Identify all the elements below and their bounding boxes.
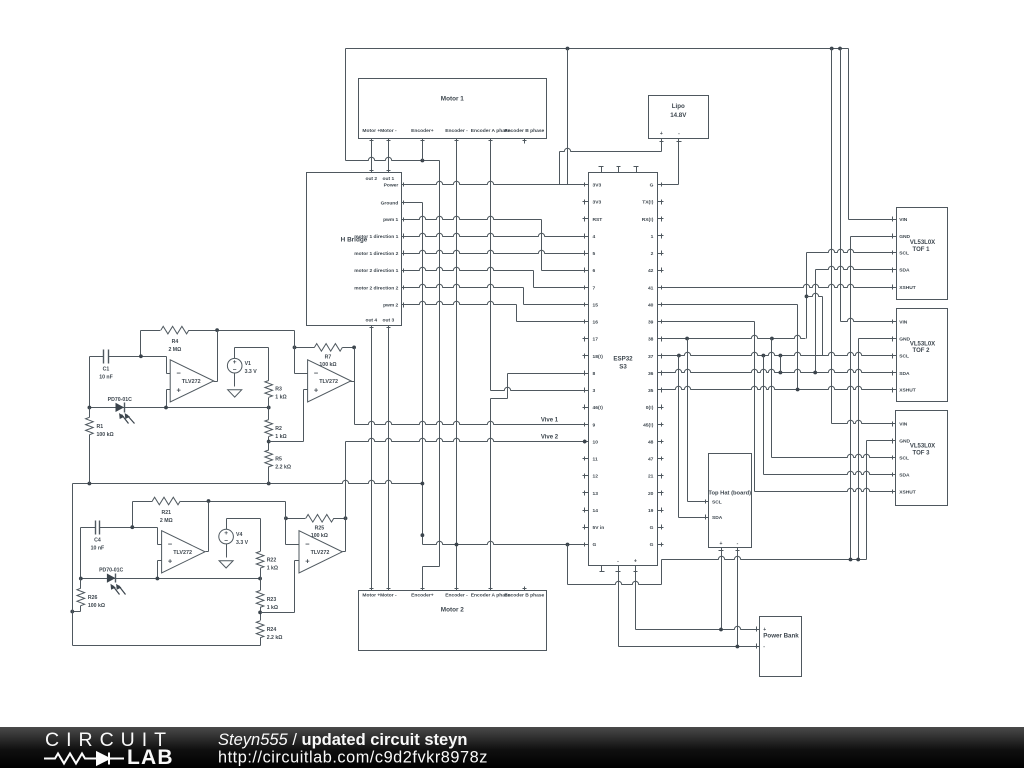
svg-text:V1: V1 [245, 361, 251, 367]
svg-text:out 3: out 3 [383, 318, 395, 324]
svg-text:+: + [177, 385, 182, 394]
svg-text:5: 5 [593, 251, 596, 257]
svg-text:17: 17 [593, 337, 599, 343]
svg-text:100 kΩ: 100 kΩ [88, 603, 105, 609]
svg-text:45(!): 45(!) [643, 422, 654, 428]
svg-text:21: 21 [648, 474, 654, 480]
svg-text:R5: R5 [275, 456, 282, 462]
svg-text:9: 9 [593, 422, 596, 428]
svg-text:47: 47 [648, 457, 654, 463]
svg-text:+: + [634, 559, 637, 565]
svg-text:Encoder B phase: Encoder B phase [504, 128, 544, 134]
svg-text:TLV272: TLV272 [319, 379, 338, 385]
svg-text:VIN: VIN [899, 320, 908, 326]
svg-text:−: − [233, 366, 237, 373]
svg-text:16: 16 [593, 320, 599, 326]
svg-text:TLV272: TLV272 [311, 550, 330, 556]
svg-text:+: + [720, 541, 723, 547]
svg-text:Steyn555 / updated circuit ste: Steyn555 / updated circuit steyn [218, 731, 467, 749]
svg-text:VL53L0X: VL53L0X [910, 444, 935, 450]
svg-text:TLV272: TLV272 [173, 550, 192, 556]
svg-text:G: G [593, 542, 597, 548]
svg-text:LAB: LAB [127, 746, 174, 768]
svg-text:RX(!): RX(!) [642, 217, 654, 223]
svg-text:1 kΩ: 1 kΩ [267, 605, 278, 611]
svg-text:8: 8 [593, 371, 596, 377]
svg-text:−: − [305, 539, 310, 548]
svg-text:1 kΩ: 1 kΩ [267, 566, 278, 572]
svg-text:40: 40 [648, 302, 654, 308]
svg-text:ESP32: ESP32 [613, 355, 633, 362]
svg-text:GND: GND [899, 337, 910, 343]
svg-text:pwm 2: pwm 2 [383, 303, 398, 309]
svg-text:SDA: SDA [712, 515, 723, 521]
svg-text:39: 39 [648, 320, 654, 326]
svg-text:19: 19 [648, 508, 654, 514]
svg-text:Motor 1: Motor 1 [441, 95, 465, 102]
svg-text:Motor +: Motor + [362, 128, 380, 134]
svg-text:XSHUT: XSHUT [899, 388, 916, 394]
svg-text:V4: V4 [236, 532, 242, 538]
svg-text:46(!): 46(!) [593, 405, 604, 411]
svg-text:−: − [177, 369, 182, 378]
svg-text:Lipo: Lipo [672, 103, 685, 110]
svg-text:VL53L0X: VL53L0X [910, 341, 935, 347]
svg-text:11: 11 [593, 457, 598, 463]
svg-text:RST: RST [593, 217, 603, 223]
svg-text:-: - [763, 644, 765, 650]
svg-text:10 nF: 10 nF [99, 375, 113, 381]
svg-text:Encoder B phase: Encoder B phase [504, 593, 544, 599]
svg-text:20: 20 [648, 491, 654, 497]
svg-text:PD70-01C: PD70-01C [99, 568, 123, 574]
svg-text:SCL: SCL [899, 354, 909, 360]
svg-text:0(!): 0(!) [646, 405, 654, 411]
svg-text:out 4: out 4 [365, 318, 377, 324]
svg-text:Ground: Ground [381, 200, 399, 206]
svg-text:SCL: SCL [712, 499, 722, 505]
svg-text:Motor -: Motor - [380, 128, 397, 134]
svg-text:SCL: SCL [899, 455, 909, 461]
svg-text:http://circuitlab.com/c9d2fvkr: http://circuitlab.com/c9d2fvkr8978z [218, 749, 488, 767]
svg-text:TOF 1: TOF 1 [913, 247, 931, 253]
svg-text:38: 38 [648, 337, 654, 343]
svg-text:VIN: VIN [899, 422, 908, 428]
svg-text:TX(!): TX(!) [642, 200, 654, 206]
svg-text:10: 10 [593, 439, 599, 445]
svg-text:SDA: SDA [899, 371, 910, 377]
svg-text:R25: R25 [315, 525, 325, 531]
svg-text:2 MΩ: 2 MΩ [160, 518, 173, 524]
svg-text:out 1: out 1 [383, 176, 395, 182]
svg-text:100 kΩ: 100 kΩ [97, 432, 114, 438]
svg-text:motor 2 direction 1: motor 2 direction 1 [354, 268, 398, 274]
svg-text:PD70-01C: PD70-01C [108, 397, 132, 403]
svg-text:3.3 V: 3.3 V [236, 540, 249, 546]
svg-text:100 kΩ: 100 kΩ [311, 533, 328, 539]
svg-text:2 MΩ: 2 MΩ [168, 347, 181, 353]
svg-text:TOF 2: TOF 2 [913, 348, 931, 354]
svg-text:XSHUT: XSHUT [899, 285, 916, 291]
svg-text:3.3 V: 3.3 V [245, 369, 258, 375]
svg-text:3V3: 3V3 [593, 183, 602, 189]
svg-text:Encoder+: Encoder+ [411, 128, 434, 134]
svg-text:1: 1 [651, 234, 654, 240]
svg-text:42: 42 [648, 268, 654, 274]
svg-text:R21: R21 [162, 510, 172, 516]
svg-text:S3: S3 [619, 364, 627, 371]
svg-text:+: + [763, 627, 766, 633]
svg-text:XSHUT: XSHUT [899, 489, 916, 495]
svg-text:-: - [678, 131, 680, 137]
svg-text:TOF 3: TOF 3 [913, 450, 931, 456]
svg-text:Encoder -: Encoder - [445, 128, 468, 134]
svg-text:10 nF: 10 nF [91, 545, 105, 551]
svg-text:1 kΩ: 1 kΩ [275, 434, 286, 440]
svg-text:14: 14 [593, 508, 599, 514]
svg-text:3: 3 [593, 388, 596, 394]
svg-text:Motor +: Motor + [362, 593, 380, 599]
svg-text:GND: GND [899, 439, 910, 445]
svg-text:Power: Power [384, 182, 399, 188]
svg-text:pwm 1: pwm 1 [383, 217, 398, 223]
svg-text:motor 2 direction 2: motor 2 direction 2 [354, 285, 398, 291]
svg-text:+: + [314, 385, 319, 394]
svg-text:R3: R3 [275, 387, 282, 393]
svg-text:Power Bank: Power Bank [763, 632, 799, 639]
svg-text:Top Hat (board): Top Hat (board) [708, 490, 751, 496]
svg-text:7: 7 [593, 285, 596, 291]
svg-text:motor 1 direction 1: motor 1 direction 1 [354, 234, 398, 240]
svg-text:G: G [650, 183, 654, 189]
svg-text:−: − [314, 369, 319, 378]
svg-text:G: G [650, 542, 654, 548]
svg-text:2.2 kΩ: 2.2 kΩ [267, 635, 283, 641]
svg-text:48: 48 [648, 439, 654, 445]
svg-text:C1: C1 [103, 367, 110, 373]
svg-text:14.8V: 14.8V [670, 112, 687, 119]
svg-text:36: 36 [648, 371, 654, 377]
svg-text:41: 41 [648, 285, 654, 291]
svg-text:15: 15 [593, 302, 599, 308]
svg-text:37: 37 [648, 354, 654, 360]
svg-text:-: - [617, 559, 619, 565]
svg-text:R23: R23 [267, 597, 277, 603]
svg-text:5V in: 5V in [593, 525, 605, 531]
svg-text:motor 1 direction 2: motor 1 direction 2 [354, 251, 398, 257]
svg-text:R22: R22 [267, 558, 277, 564]
svg-text:2: 2 [651, 251, 654, 257]
svg-text:Encoder -: Encoder - [445, 593, 468, 599]
svg-text:2.2 kΩ: 2.2 kΩ [275, 464, 291, 470]
svg-text:3V3: 3V3 [593, 200, 602, 206]
svg-text:+: + [305, 556, 310, 565]
svg-text:SCL: SCL [899, 251, 909, 257]
svg-text:+: + [233, 359, 237, 366]
svg-text:13: 13 [593, 491, 599, 497]
svg-text:−: − [168, 539, 173, 548]
svg-text:C4: C4 [94, 537, 101, 543]
svg-text:Motor 2: Motor 2 [441, 606, 465, 613]
svg-text:R24: R24 [267, 627, 277, 633]
svg-text:+: + [660, 131, 663, 137]
svg-text:18(!): 18(!) [593, 354, 604, 360]
svg-text:GND: GND [899, 234, 910, 240]
svg-text:out 2: out 2 [365, 176, 377, 182]
svg-text:6: 6 [593, 268, 596, 274]
svg-text:+: + [224, 530, 228, 537]
svg-text:35: 35 [648, 388, 654, 394]
svg-text:−: − [224, 537, 228, 544]
svg-text:4: 4 [593, 234, 596, 240]
svg-text:Motor -: Motor - [380, 593, 397, 599]
svg-text:SDA: SDA [899, 472, 910, 478]
svg-text:SDA: SDA [899, 268, 910, 274]
svg-text:TLV272: TLV272 [182, 379, 201, 385]
svg-text:Encoder+: Encoder+ [411, 593, 434, 599]
svg-text:VL53L0X: VL53L0X [910, 240, 935, 246]
svg-text:Vive 2: Vive 2 [541, 434, 559, 440]
svg-text:R26: R26 [88, 595, 98, 601]
svg-text:12: 12 [593, 474, 599, 480]
svg-text:R7: R7 [325, 354, 332, 360]
svg-text:R4: R4 [172, 339, 179, 345]
svg-text:-: - [737, 541, 739, 547]
svg-text:Vive 1: Vive 1 [541, 417, 559, 423]
svg-text:VIN: VIN [899, 217, 908, 223]
svg-text:R1: R1 [97, 424, 104, 430]
svg-text:R2: R2 [275, 426, 282, 432]
svg-text:+: + [168, 556, 173, 565]
svg-text:G: G [650, 525, 654, 531]
svg-text:100 kΩ: 100 kΩ [319, 362, 336, 368]
svg-text:1 kΩ: 1 kΩ [275, 395, 286, 401]
